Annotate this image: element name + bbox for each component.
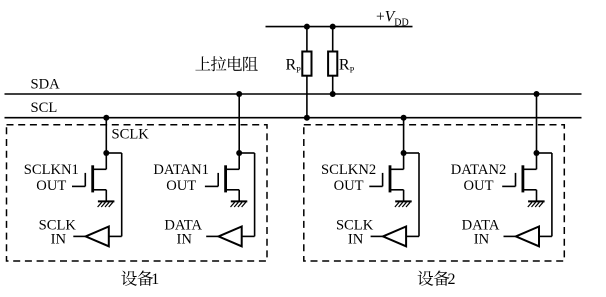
bus SDA bbox=[5, 93, 582, 95]
svg-text:OUT: OUT bbox=[166, 178, 196, 194]
wire bus drop Q3 bbox=[403, 118, 405, 153]
junction dot bus node Q2 bbox=[236, 91, 242, 97]
svg-text:IN: IN bbox=[176, 232, 192, 248]
buffer U4 bbox=[516, 227, 539, 247]
device box 设备1 (dashed) bbox=[7, 125, 268, 261]
wire node to buffer (right) Q1 bbox=[106, 152, 121, 154]
svg-text:SCLKN1: SCLKN1 bbox=[24, 162, 79, 178]
wire buffer output Q3 bbox=[371, 235, 383, 237]
junction dot bus node Q1 bbox=[103, 115, 109, 121]
wire source to ground Q3 bbox=[403, 190, 405, 202]
junction dot bus node Q4 bbox=[534, 91, 540, 97]
transistor Q2 bbox=[238, 153, 240, 169]
svg-text:OUT: OUT bbox=[334, 178, 364, 194]
wire buffer output Q1 bbox=[73, 235, 85, 237]
wire buffer output Q4 bbox=[504, 235, 516, 237]
junction dot bus node Q3 bbox=[401, 115, 407, 121]
label 设备2 bbox=[418, 271, 434, 286]
svg-text:IN: IN bbox=[51, 232, 67, 248]
svg-text:OUT: OUT bbox=[36, 178, 66, 194]
svg-text:DATAN1: DATAN1 bbox=[153, 162, 209, 178]
svg-text:DATAN2: DATAN2 bbox=[451, 162, 507, 178]
junction dot VDD-R2 bbox=[330, 24, 336, 30]
resistor RP1 bbox=[306, 27, 308, 52]
label 上拉电阻 (pull-up resistor) bbox=[195, 56, 210, 70]
transistor Q3 bbox=[403, 153, 405, 169]
junction dot R2-SDA bbox=[330, 91, 336, 97]
transistor Q1 bbox=[105, 153, 107, 169]
wire bus drop Q1 bbox=[105, 118, 107, 153]
junction dot drain node Q2 bbox=[236, 150, 242, 156]
junction dot VDD-R1 bbox=[304, 24, 310, 30]
wire bus drop Q2 bbox=[238, 94, 240, 153]
svg-text:SCLKN2: SCLKN2 bbox=[321, 162, 376, 178]
junction dot drain node Q4 bbox=[534, 150, 540, 156]
svg-text:SCLK: SCLK bbox=[112, 127, 150, 143]
svg-text:1: 1 bbox=[151, 271, 159, 288]
svg-text:SDA: SDA bbox=[31, 77, 61, 93]
ground Q3 bbox=[395, 200, 412, 202]
svg-text:IN: IN bbox=[474, 232, 490, 248]
svg-text:SCL: SCL bbox=[31, 100, 58, 116]
label 设备1 bbox=[121, 271, 137, 286]
svg-text:RP: RP bbox=[286, 57, 302, 75]
wire source to ground Q2 bbox=[238, 190, 240, 202]
svg-text:2: 2 bbox=[448, 271, 456, 288]
buffer U1 bbox=[86, 227, 109, 247]
device box 设备2 (dashed) bbox=[304, 125, 565, 261]
power rail +VDD bbox=[266, 26, 413, 28]
junction dot drain node Q3 bbox=[401, 150, 407, 156]
resistor RP2 bbox=[332, 27, 334, 52]
wire source to ground Q1 bbox=[105, 190, 107, 202]
buffer U3 bbox=[383, 227, 406, 247]
wire buffer output Q2 bbox=[206, 235, 218, 237]
svg-text:RP: RP bbox=[339, 57, 355, 75]
wire bus drop Q4 bbox=[536, 94, 538, 153]
ground Q2 bbox=[231, 200, 248, 202]
wire R2 to SDA bbox=[332, 76, 334, 94]
wire node to buffer (right) Q2 bbox=[239, 152, 254, 154]
bus SCL bbox=[5, 117, 582, 119]
wire node to buffer (right) Q3 bbox=[404, 152, 419, 154]
svg-text:+VDD: +VDD bbox=[376, 9, 409, 29]
wire R1 to SCL bbox=[306, 76, 308, 118]
wire node to buffer (right) Q4 bbox=[537, 152, 552, 154]
svg-text:OUT: OUT bbox=[464, 178, 494, 194]
junction dot R1-SCL bbox=[304, 115, 310, 121]
svg-text:IN: IN bbox=[348, 232, 364, 248]
transistor Q4 bbox=[536, 153, 538, 169]
wire source to ground Q4 bbox=[536, 190, 538, 202]
buffer U2 bbox=[219, 227, 242, 247]
ground Q1 bbox=[98, 200, 115, 202]
junction dot drain node Q1 bbox=[103, 150, 109, 156]
ground Q4 bbox=[528, 200, 545, 202]
